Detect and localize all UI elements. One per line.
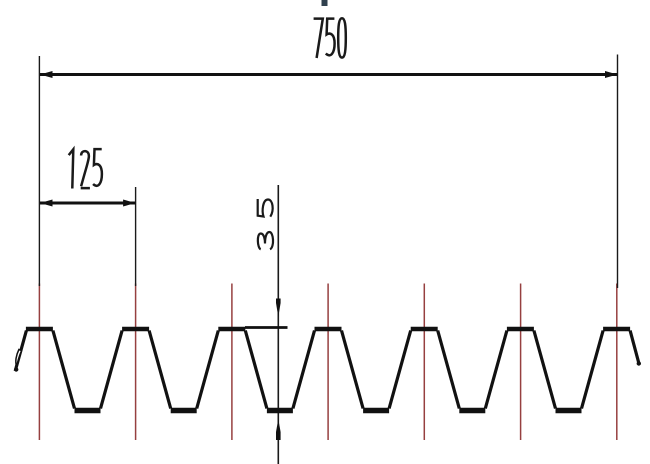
arrow left of 125 — [40, 200, 53, 207]
web down 2 — [149, 331, 171, 409]
arrow top of 35 — [276, 299, 281, 318]
top flange 7 — [603, 327, 630, 332]
arrow bottom of 35 — [276, 419, 281, 440]
arrow right of 125 — [123, 200, 136, 207]
left end loop — [16, 350, 22, 367]
label 750 — [314, 18, 346, 58]
dimension line 750 — [40, 73, 618, 76]
web down 3 — [245, 331, 267, 409]
web up 1 — [101, 331, 123, 409]
web up 5 — [485, 331, 507, 409]
red centerline 5 — [423, 284, 425, 441]
bottom flange 5 — [459, 408, 485, 414]
web down 1 — [53, 331, 75, 409]
left end blob — [14, 367, 18, 371]
label 35 (rotated) — [258, 199, 273, 249]
bottom flange 6 — [556, 408, 582, 414]
bottom flange 2 — [171, 408, 197, 414]
left end web with hook — [15, 331, 26, 372]
digit 3 of 35 — [258, 232, 273, 249]
red centerline 1 — [38, 284, 40, 441]
bottom flange 3 — [267, 408, 293, 414]
top flange 1 — [26, 327, 53, 332]
dimension line 35 (vertical) — [277, 185, 279, 464]
arrow left of 750 — [40, 71, 53, 78]
bottom flange 1 — [75, 408, 101, 414]
top flange 2 — [122, 327, 149, 332]
extension of top flange for 35 dim — [245, 326, 288, 329]
dimension line 125 — [40, 202, 136, 205]
top flange 3 — [218, 327, 245, 332]
profile sheet — [14, 329, 641, 411]
red centerline 4 — [327, 284, 329, 441]
web up 2 — [197, 331, 219, 409]
web up 4 — [389, 331, 411, 409]
web up 3 — [293, 331, 315, 409]
red centerline 7 — [616, 284, 618, 441]
extension line right of 750 (x=617.5) — [617, 55, 619, 289]
right end blob — [637, 361, 641, 365]
arrow right of 750 — [605, 71, 618, 78]
extension line left (x=39.4) — [38, 56, 40, 286]
red centerline 6 — [520, 284, 522, 441]
digit 5 of 35 — [258, 199, 273, 217]
teal cropped square at top — [322, 0, 328, 6]
bottom flange 4 — [363, 408, 389, 414]
extension line right of 125 (x=135.6) — [135, 187, 137, 286]
top flange 6 — [507, 327, 534, 332]
web down 6 — [534, 331, 556, 409]
red centerline 2 — [135, 284, 137, 441]
web down 5 — [438, 331, 460, 409]
web up 6 — [582, 331, 604, 409]
top flange 5 — [411, 327, 438, 332]
web down 4 — [342, 331, 364, 409]
right end web — [630, 331, 639, 365]
top flange 4 — [315, 327, 342, 332]
red centerline 3 — [231, 284, 233, 441]
label 125 — [69, 149, 102, 188]
